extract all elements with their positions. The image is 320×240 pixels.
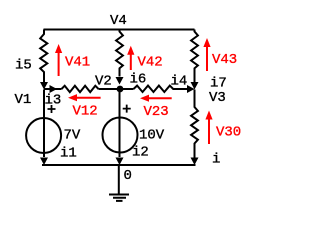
voltage arrow V30 (red, up) <box>208 120 210 145</box>
wire bottom horizontal (node 0) <box>42 164 196 166</box>
current arrow i6 into node V2 (down) <box>116 77 124 85</box>
svg-text:V41: V41 <box>65 55 90 71</box>
svg-text:10V: 10V <box>139 128 165 144</box>
wire left branch vertical through source <box>43 90 45 158</box>
voltage arrow V42 (red, up) <box>130 54 132 71</box>
current arrow i1 into bottom wire (down) <box>40 158 48 166</box>
current arrow into node V3 (down) <box>191 82 199 90</box>
resistor right top branch (V43) <box>191 30 198 83</box>
svg-text:i1: i1 <box>60 146 77 162</box>
svg-text:i: i <box>212 152 220 168</box>
voltage arrow V23 (red, left) <box>148 97 172 99</box>
wire top horizontal (node V4) <box>44 29 195 31</box>
svg-text:i3: i3 <box>45 93 62 109</box>
svg-text:0: 0 <box>124 168 132 184</box>
current arrow into node V1 (down) <box>40 82 48 90</box>
wire middle horizontal left segment <box>44 88 62 90</box>
svg-text:V30: V30 <box>216 125 241 141</box>
svg-text:V12: V12 <box>73 104 98 120</box>
plus sign of 7V source <box>48 105 56 113</box>
svg-text:V42: V42 <box>138 55 163 71</box>
svg-text:V1: V1 <box>15 92 32 108</box>
svg-text:7V: 7V <box>64 128 81 144</box>
ground bars <box>109 195 129 201</box>
plus sign of 10V source <box>123 105 131 113</box>
ground stem <box>118 165 120 194</box>
resistor left top branch (V41) <box>40 30 47 83</box>
current arrow i2 into bottom wire (down) <box>116 158 124 166</box>
voltage arrow V43 (red, up) <box>206 47 208 71</box>
svg-text:i6: i6 <box>130 72 147 88</box>
current arrow i4 into node V3 (right) <box>187 85 195 93</box>
wire middle branch vertical through source <box>119 90 121 158</box>
wire middle horizontal right segment <box>174 88 190 90</box>
voltage arrow V41 (red, up) <box>58 52 60 76</box>
resistor V12 (horizontal) <box>62 86 99 92</box>
resistor V23 (horizontal) <box>134 86 175 92</box>
svg-text:V2: V2 <box>95 74 112 90</box>
voltage source 10V (circle) <box>103 118 138 153</box>
svg-text:V3: V3 <box>209 90 226 106</box>
voltage source 7V (circle) <box>26 118 61 153</box>
wire middle horizontal centre segment <box>99 88 134 90</box>
svg-text:V43: V43 <box>212 52 237 68</box>
svg-text:V4: V4 <box>110 13 127 29</box>
resistor V30 (right lower branch) <box>191 90 198 158</box>
node dot V2 <box>117 86 124 93</box>
svg-text:i4: i4 <box>171 74 188 90</box>
voltage arrow V12 (red, left) <box>76 97 101 99</box>
current arrow i into bottom wire (down) <box>191 158 199 166</box>
svg-text:V23: V23 <box>144 104 169 120</box>
svg-text:i5: i5 <box>15 58 32 74</box>
svg-text:i2: i2 <box>132 145 149 161</box>
resistor middle top branch (V42) <box>116 30 123 77</box>
current arrow i3 (right) <box>50 85 58 93</box>
